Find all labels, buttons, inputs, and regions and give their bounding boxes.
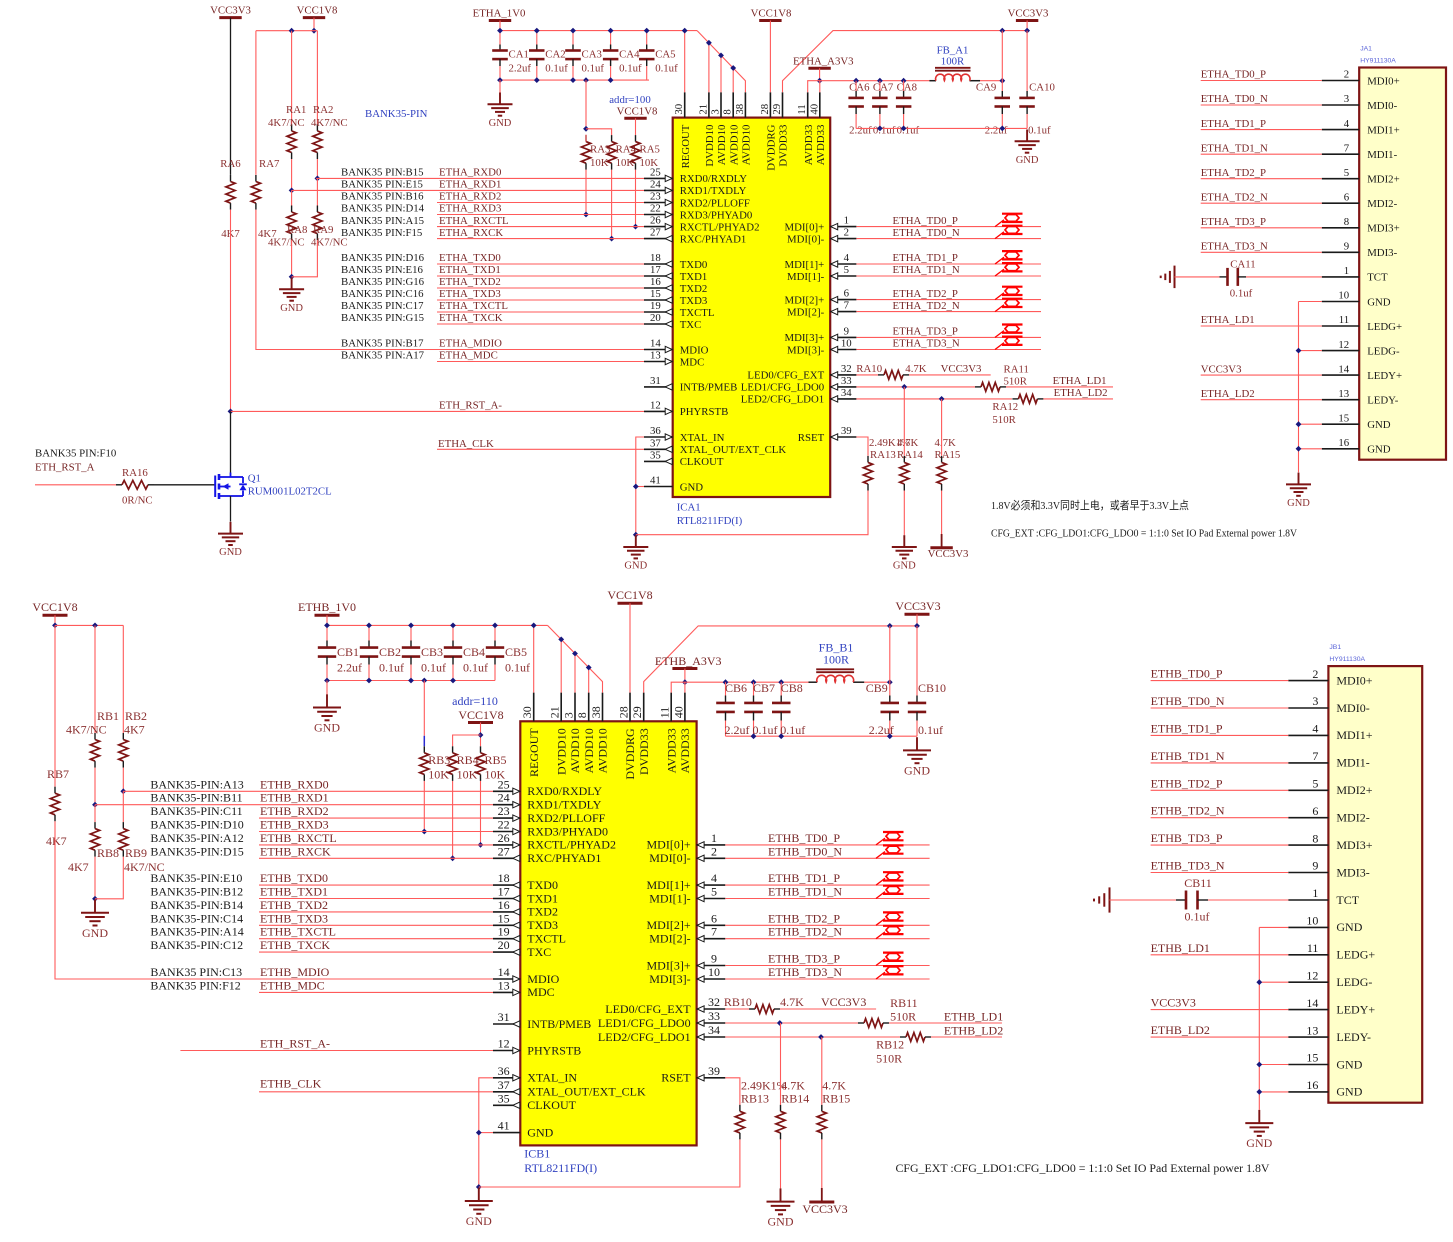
svg-text:RXD2/PLLOFF: RXD2/PLLOFF — [680, 197, 750, 209]
wire VCC3V3 — [1151, 1009, 1289, 1011]
junction — [366, 623, 372, 629]
wire — [889, 721, 891, 737]
svg-text:LEDY-: LEDY- — [1336, 1030, 1371, 1044]
svg-text:5: 5 — [1312, 777, 1318, 791]
wire RA6 to PHYRSTB — [230, 210, 232, 412]
wire ETHA_CLK — [437, 448, 644, 450]
wire ETHB_TD2_P — [725, 924, 929, 926]
svg-text:ETHB_TD0_P: ETHB_TD0_P — [768, 831, 840, 845]
svg-text:11: 11 — [1339, 314, 1349, 326]
junction — [887, 733, 893, 739]
svg-text:13: 13 — [1306, 1023, 1318, 1037]
svg-text:BANK35 PIN:C17: BANK35 PIN:C17 — [341, 300, 424, 312]
svg-text:32: 32 — [708, 995, 720, 1009]
pin 1 TCT — [1288, 899, 1328, 901]
pin 18 TXD0 — [644, 263, 673, 265]
pin 34 LED2/CFG_LDO1 — [830, 398, 856, 400]
svg-text:CB4: CB4 — [463, 645, 485, 659]
pin 27 RXC/PHYAD1 — [644, 238, 673, 240]
ground left of CB11 — [1109, 887, 1111, 912]
svg-text:ETHA_RXCK: ETHA_RXCK — [439, 227, 503, 239]
svg-text:4.7K: 4.7K — [905, 363, 926, 375]
pin 11 AVDD33 — [807, 92, 809, 117]
wire — [1006, 386, 1113, 388]
wire ETHB_A3V3 net — [671, 682, 808, 692]
junction — [92, 623, 98, 629]
svg-text:ETH_RST_A: ETH_RST_A — [35, 462, 95, 474]
svg-text:16: 16 — [650, 276, 661, 288]
svg-text:ETHB_RXCTL: ETHB_RXCTL — [260, 831, 337, 845]
svg-text:2.2uf: 2.2uf — [337, 661, 362, 675]
junction — [901, 384, 907, 390]
pin 6 MDI[2]+ — [697, 924, 726, 926]
junction — [633, 532, 639, 538]
svg-text:ETHB_TXD1: ETHB_TXD1 — [260, 885, 328, 899]
wire ETHA_RXD2 — [437, 202, 644, 204]
wire ETHB_TXCK — [259, 951, 493, 953]
wire ETHB_TD1_P — [1151, 734, 1289, 736]
resistor RA16 0R/NC — [116, 484, 122, 486]
wire RA14 col — [903, 387, 905, 456]
junction — [1296, 348, 1302, 354]
svg-text:19: 19 — [650, 300, 661, 312]
svg-text:GND: GND — [1367, 444, 1391, 456]
svg-text:ETHA_TD0_N: ETHA_TD0_N — [1201, 93, 1268, 105]
connector JB1 HY911130A — [1328, 666, 1422, 1103]
wire ETHB_LD1 — [1151, 954, 1289, 956]
pin 9 MDI3- — [1322, 251, 1359, 253]
svg-text:13: 13 — [498, 978, 510, 992]
svg-text:11: 11 — [796, 104, 808, 114]
svg-text:4: 4 — [1344, 118, 1350, 130]
svg-text:CB9: CB9 — [866, 681, 888, 695]
wire ETHB_TD0_P — [725, 844, 929, 846]
svg-text:GND: GND — [314, 721, 340, 735]
svg-text:RA9: RA9 — [313, 224, 333, 236]
pin 36 XTAL_IN — [493, 1077, 520, 1079]
wire ETHA_TXCK — [437, 323, 644, 325]
wire — [313, 18, 315, 31]
wire ETHB_TD2_N — [725, 938, 929, 940]
wire VCC1V8 rail — [55, 624, 123, 626]
pin 2 MDI[0]- — [830, 238, 856, 240]
svg-text:40: 40 — [808, 104, 820, 115]
capacitor CA11 0.1uf — [1220, 276, 1228, 278]
wire RA4 to RXC — [611, 170, 613, 239]
pin 5 MDI[1]- — [830, 275, 856, 277]
svg-text:LEDY+: LEDY+ — [1336, 1002, 1375, 1016]
svg-text:0.1uf: 0.1uf — [379, 661, 404, 675]
svg-text:XTAL_OUT/EXT_CLK: XTAL_OUT/EXT_CLK — [527, 1085, 646, 1099]
wire cap bottom bus — [726, 735, 918, 737]
svg-text:LEDG+: LEDG+ — [1367, 321, 1402, 333]
svg-text:ICB1: ICB1 — [524, 1147, 550, 1161]
svg-text:7: 7 — [844, 300, 850, 312]
junction — [914, 623, 920, 629]
svg-text:CA3: CA3 — [582, 49, 602, 61]
pin 5 MDI2+ — [1322, 178, 1359, 180]
svg-text:36: 36 — [498, 1064, 510, 1078]
svg-text:RA10: RA10 — [856, 363, 882, 375]
pin 6 MDI2- — [1322, 202, 1359, 204]
ground GND under ICA1 — [635, 535, 637, 547]
svg-text:RB7: RB7 — [47, 767, 69, 781]
wire gnd pin16 — [1259, 1091, 1288, 1093]
svg-text:0.1uf: 0.1uf — [655, 63, 678, 75]
ground GND under RA14 — [903, 535, 905, 547]
ground GND under CB10 — [916, 737, 918, 750]
svg-text:RB11: RB11 — [890, 996, 918, 1010]
wire — [122, 625, 124, 733]
junction — [751, 679, 757, 685]
svg-text:0.1uf: 0.1uf — [918, 723, 943, 737]
wire pin30 drop — [684, 31, 686, 93]
wire — [1001, 114, 1003, 128]
svg-text:AVDD10: AVDD10 — [568, 728, 582, 773]
svg-text:DVDDRG: DVDDRG — [623, 728, 637, 780]
svg-text:MDC: MDC — [680, 356, 705, 368]
wire ETHB_TD0_N — [1151, 707, 1289, 709]
wire LED1 — [725, 1022, 858, 1024]
svg-text:20: 20 — [498, 938, 510, 952]
svg-text:MDI3-: MDI3- — [1336, 865, 1369, 879]
svg-text:RA12: RA12 — [992, 401, 1018, 413]
svg-text:ETHA_CLK: ETHA_CLK — [438, 438, 494, 450]
svg-text:9: 9 — [711, 952, 717, 966]
wire to RA4 — [586, 129, 612, 135]
junction — [901, 126, 907, 132]
svg-text:ETHA_TD1_N: ETHA_TD1_N — [893, 264, 960, 276]
svg-text:PHYRSTB: PHYRSTB — [680, 406, 729, 418]
svg-text:CB2: CB2 — [379, 645, 401, 659]
pin 1 TCT — [1322, 276, 1359, 278]
svg-text:BANK35 PIN:G16: BANK35 PIN:G16 — [341, 276, 425, 288]
junction — [718, 53, 724, 59]
svg-text:GND: GND — [466, 1214, 492, 1228]
wire RSET — [725, 1078, 740, 1105]
svg-text:100R: 100R — [823, 653, 849, 667]
wire ETHA_TD3_P — [856, 336, 1041, 338]
junction — [1024, 28, 1030, 34]
svg-text:ETHB_LD2: ETHB_LD2 — [1151, 1023, 1210, 1037]
wire ETHA_RXD0 — [316, 177, 644, 179]
wire ETHB_TD3_N — [725, 978, 929, 980]
junction — [682, 28, 688, 34]
pin 14 LEDY+ — [1288, 1009, 1328, 1011]
wire — [980, 80, 1002, 82]
wire ETHA_TD0_N — [856, 238, 1041, 240]
svg-text:AVDD10: AVDD10 — [596, 728, 610, 773]
svg-text:0.1uf: 0.1uf — [545, 63, 568, 75]
pin 13 LEDY- — [1288, 1036, 1328, 1038]
svg-text:VCC1V8: VCC1V8 — [607, 588, 652, 602]
svg-text:TXD0: TXD0 — [680, 259, 708, 271]
wire LED2 — [725, 1036, 900, 1038]
wire gnd pin10 — [1259, 926, 1288, 928]
svg-text:MDI2+: MDI2+ — [1367, 174, 1399, 186]
wire ETHB_TD0_P — [1151, 680, 1289, 682]
svg-text:MDI3+: MDI3+ — [1336, 838, 1372, 852]
pin 26 RXCTL/PHYAD2 — [493, 844, 520, 846]
svg-text:MDI[3]-: MDI[3]- — [649, 972, 690, 986]
svg-text:GND: GND — [1367, 419, 1391, 431]
junction — [366, 678, 372, 684]
svg-text:GND: GND — [1246, 1136, 1272, 1150]
svg-text:CA4: CA4 — [619, 49, 640, 61]
wire — [903, 81, 905, 91]
svg-text:0.1uf: 0.1uf — [582, 63, 605, 75]
wire — [725, 1008, 749, 1010]
svg-text:AVDD33: AVDD33 — [664, 728, 678, 773]
svg-text:3: 3 — [1312, 694, 1318, 708]
pin 26 RXCTL/PHYAD2 — [644, 226, 673, 228]
junction — [817, 78, 823, 84]
svg-text:ETHA_RXD0: ETHA_RXD0 — [439, 167, 501, 179]
svg-text:MDI0-: MDI0- — [1367, 100, 1397, 112]
svg-text:LED1/CFG_LDO0: LED1/CFG_LDO0 — [741, 382, 824, 394]
junction — [476, 1184, 482, 1190]
svg-text:2.49K1%: 2.49K1% — [741, 1078, 787, 1092]
wire — [931, 1036, 1002, 1038]
svg-text:DVDD33: DVDD33 — [637, 728, 651, 775]
wire — [95, 857, 123, 899]
differential pair marker ETHA_TD0_N — [995, 232, 1004, 239]
wire ETHB_RXD0 — [123, 790, 493, 792]
svg-text:MDI[2]-: MDI[2]- — [649, 932, 690, 946]
svg-text:CFG_EXT :CFG_LDO1:CFG_LDO0 =: CFG_EXT :CFG_LDO1:CFG_LDO0 = 1:1:0 Set I… — [896, 1161, 1270, 1175]
svg-text:LED0/CFG_EXT: LED0/CFG_EXT — [747, 370, 824, 382]
resistor RB4 10K — [452, 746, 454, 753]
svg-text:CLKOUT: CLKOUT — [680, 456, 724, 468]
svg-text:18: 18 — [498, 871, 510, 885]
svg-text:11: 11 — [1307, 941, 1319, 955]
svg-text:CA2: CA2 — [545, 49, 565, 61]
wire ETHA_RXD3 — [437, 214, 644, 216]
junction — [531, 623, 537, 629]
svg-text:MDI[0]+: MDI[0]+ — [785, 221, 825, 233]
svg-text:JB1: JB1 — [1329, 644, 1341, 651]
svg-text:RXD0/RXDLY: RXD0/RXDLY — [527, 784, 602, 798]
pin 23 RXD2/PLLOFF — [493, 817, 520, 819]
svg-text:6: 6 — [711, 911, 717, 925]
svg-text:LED0/CFG_EXT: LED0/CFG_EXT — [605, 1002, 691, 1016]
svg-text:BANK35 PIN:A17: BANK35 PIN:A17 — [341, 350, 425, 362]
junction — [228, 409, 234, 415]
pin 9 MDI[3]+ — [697, 965, 726, 967]
wire — [94, 805, 96, 822]
differential pair marker ETHB_TD1_N — [876, 892, 885, 899]
svg-text:ETHA_TD0_P: ETHA_TD0_P — [893, 215, 958, 227]
svg-text:ETHA_TXD0: ETHA_TXD0 — [439, 252, 501, 264]
svg-text:BANK35-PIN:E10: BANK35-PIN:E10 — [150, 871, 242, 885]
wire ETHA_MDIO row — [256, 210, 644, 350]
wire ETHB_MDC — [259, 991, 493, 993]
wire — [1026, 114, 1028, 128]
svg-text:10K: 10K — [485, 768, 506, 782]
wire cap bottom bus — [327, 680, 495, 682]
svg-text:VCC1V8: VCC1V8 — [617, 106, 658, 118]
pin 11 LEDG+ — [1322, 325, 1359, 327]
wire ETHA_TXD0 — [437, 263, 644, 265]
svg-text:CA10: CA10 — [1029, 82, 1055, 94]
svg-text:19: 19 — [498, 925, 510, 939]
svg-text:ETHB_MDIO: ETHB_MDIO — [260, 965, 330, 979]
ground GND under RB8 — [94, 900, 96, 913]
svg-text:12: 12 — [650, 399, 661, 411]
svg-text:TCT: TCT — [1367, 272, 1388, 284]
wire ETHB_TXCTL — [259, 938, 493, 940]
wire ETHB_LD2 — [1151, 1036, 1289, 1038]
svg-text:ETHB_1V0: ETHB_1V0 — [298, 600, 356, 614]
svg-text:23: 23 — [498, 804, 510, 818]
pin 10 MDI[3]- — [830, 349, 856, 351]
pin 17 TXD1 — [644, 275, 673, 277]
differential pair marker ETHB_TD3_N — [876, 972, 885, 979]
wire ETHB_RXD1 — [95, 804, 493, 806]
wire RA13 to GND — [636, 491, 868, 535]
wire ETHA_TXCTL — [437, 311, 644, 313]
pin 41 GND — [493, 1132, 520, 1134]
wire — [572, 66, 574, 80]
wire ETHA_TD3_P — [1201, 227, 1322, 229]
wire pin drop — [732, 68, 734, 92]
svg-text:ETHA_TD2_P: ETHA_TD2_P — [893, 288, 958, 300]
svg-text:ETHB_TD3_N: ETHB_TD3_N — [768, 965, 842, 979]
svg-text:0R/NC: 0R/NC — [122, 495, 153, 507]
svg-text:LED2/CFG_LDO1: LED2/CFG_LDO1 — [741, 394, 824, 406]
pin 12 PHYRSTB — [493, 1050, 520, 1052]
svg-text:39: 39 — [708, 1064, 720, 1078]
svg-text:ETHA_1V0: ETHA_1V0 — [473, 8, 526, 20]
svg-text:0.1uf: 0.1uf — [753, 723, 778, 737]
svg-text:ETHB_TD2_P: ETHB_TD2_P — [1151, 776, 1223, 790]
junction — [450, 855, 456, 861]
wire pin drop — [560, 639, 562, 692]
pin 21 DVDD10 — [560, 693, 562, 722]
junction — [999, 78, 1005, 84]
junction — [730, 65, 736, 71]
svg-text:RB13: RB13 — [741, 1092, 769, 1106]
svg-text:ETHB_LD1: ETHB_LD1 — [1151, 941, 1210, 955]
svg-text:LED2/CFG_LDO1: LED2/CFG_LDO1 — [598, 1030, 691, 1044]
svg-text:29: 29 — [630, 706, 644, 718]
svg-text:15: 15 — [1338, 412, 1349, 424]
pin 16 TXD2 — [644, 287, 673, 289]
svg-text:ETHB_RXD3: ETHB_RXD3 — [260, 818, 329, 832]
svg-text:ETHB_TXD3: ETHB_TXD3 — [260, 911, 328, 925]
differential pair marker ETHB_TD1_P — [876, 878, 885, 885]
junction — [478, 732, 484, 738]
pin 14 MDIO — [493, 978, 520, 980]
wire cap bottom bus — [500, 79, 649, 81]
svg-text:4K7: 4K7 — [68, 860, 89, 874]
svg-text:CB8: CB8 — [781, 681, 803, 695]
wire — [780, 721, 782, 737]
svg-text:ETHB_LD2: ETHB_LD2 — [944, 1024, 1003, 1038]
ground left of CA11 — [1174, 266, 1176, 289]
svg-text:TXD0: TXD0 — [527, 878, 558, 892]
svg-text:27: 27 — [498, 844, 510, 858]
wire RA3 to RXD3 — [585, 170, 587, 215]
junction — [887, 679, 893, 685]
pin 32 LED0/CFG_EXT — [697, 1008, 726, 1010]
wire RB3 to RXD3 — [423, 781, 425, 832]
pin 7 MDI[2]- — [830, 311, 856, 313]
pin 12 LEDG- — [1288, 981, 1328, 983]
svg-text:MDI0+: MDI0+ — [1336, 673, 1372, 687]
svg-text:GND: GND — [527, 1125, 553, 1139]
junction — [887, 623, 893, 629]
svg-text:BANK35 PIN:B17: BANK35 PIN:B17 — [341, 338, 424, 350]
svg-text:VCC3V3: VCC3V3 — [895, 599, 940, 613]
svg-text:MDI[3]+: MDI[3]+ — [785, 332, 825, 344]
differential pair marker ETHA_TD3_P — [995, 331, 1004, 338]
svg-text:AVDD10: AVDD10 — [582, 728, 596, 773]
wire — [368, 625, 370, 640]
svg-text:5: 5 — [844, 264, 849, 276]
svg-text:MDI[3]-: MDI[3]- — [787, 344, 825, 356]
svg-text:RB10: RB10 — [724, 995, 752, 1009]
svg-text:ETHB_RXD1: ETHB_RXD1 — [260, 791, 329, 805]
wire ETHB_RXCTL — [259, 844, 493, 846]
svg-text:AVDD10: AVDD10 — [741, 125, 753, 166]
junction — [877, 78, 883, 84]
svg-text:ETHB_TD1_N: ETHB_TD1_N — [1151, 749, 1225, 763]
svg-text:17: 17 — [650, 264, 661, 276]
pin 12 PHYRSTB — [644, 410, 673, 412]
pin 10 GND — [1288, 926, 1328, 928]
svg-text:2: 2 — [711, 844, 717, 858]
svg-text:BANK35 PIN:A15: BANK35 PIN:A15 — [341, 215, 424, 227]
junction — [608, 77, 614, 83]
svg-text:24: 24 — [498, 791, 510, 805]
svg-text:RB15: RB15 — [822, 1092, 850, 1106]
svg-text:MDI[0]+: MDI[0]+ — [647, 838, 691, 852]
svg-text:2: 2 — [1312, 667, 1318, 681]
svg-text:9: 9 — [1344, 241, 1349, 253]
svg-text:14: 14 — [498, 965, 510, 979]
junction — [289, 188, 295, 194]
wire ETHB_RXCK — [259, 857, 493, 859]
junction — [492, 623, 498, 629]
wire ETHA_LD2 — [1201, 399, 1322, 401]
svg-text:33: 33 — [841, 375, 852, 387]
svg-text:CA9: CA9 — [976, 82, 996, 94]
junction — [999, 28, 1005, 34]
pin 4 MDI[1]+ — [830, 263, 856, 265]
wire ETHA_TXD1 — [437, 275, 644, 277]
wire — [889, 626, 891, 696]
svg-text:ETHA_TD0_N: ETHA_TD0_N — [893, 227, 960, 239]
pin 2 MDI0+ — [1288, 680, 1328, 682]
svg-text:28: 28 — [759, 104, 771, 115]
ground GND under RB14 — [780, 1188, 782, 1201]
junction — [586, 665, 592, 671]
svg-text:31: 31 — [650, 375, 661, 387]
svg-text:22: 22 — [498, 818, 510, 832]
svg-text:12: 12 — [1306, 968, 1318, 982]
pin 7 MDI1- — [1288, 762, 1328, 764]
svg-text:ETHA_TD3_P: ETHA_TD3_P — [1201, 216, 1266, 228]
svg-text:HY911130A: HY911130A — [1329, 656, 1365, 663]
pin 22 RXD3/PHYAD0 — [644, 214, 673, 216]
wire — [316, 159, 318, 178]
wire cap bottom bus — [856, 127, 1027, 129]
svg-text:ETHB_TD1_P: ETHB_TD1_P — [768, 871, 840, 885]
junction — [450, 678, 456, 684]
svg-text:GND: GND — [280, 303, 303, 314]
svg-text:RXD1/TXDLY: RXD1/TXDLY — [680, 185, 747, 197]
